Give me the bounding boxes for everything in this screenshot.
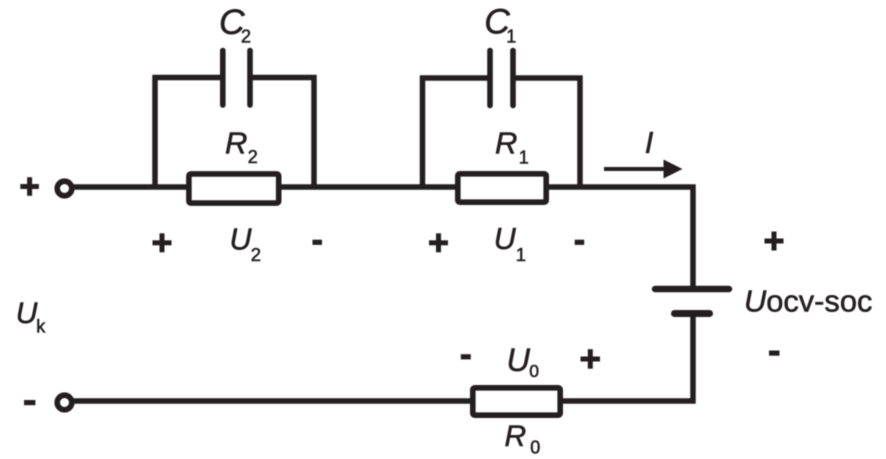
terminal minus circle [57, 395, 72, 410]
resistor R1 body [458, 174, 546, 202]
svg-text:1: 1 [519, 147, 529, 167]
C1 loop right vertical wire [577, 76, 583, 188]
svg-text:k: k [36, 316, 46, 336]
minus sign below Uocv [769, 351, 780, 356]
plus sign left of U2 [153, 233, 172, 252]
capacitor C2 plates [223, 51, 250, 106]
plus sign above Uocv [765, 232, 784, 251]
current arrow I head [664, 160, 683, 179]
svg-text:2: 2 [251, 244, 261, 265]
wire bottom-left [73, 398, 473, 404]
plus sign right of U0 [581, 349, 601, 369]
svg-text:1: 1 [516, 244, 526, 265]
svg-text:2: 2 [241, 27, 251, 47]
svg-text:U: U [507, 342, 531, 378]
svg-text:U: U [230, 223, 253, 257]
svg-text:R: R [505, 420, 527, 453]
wire top-left [73, 184, 190, 190]
capacitor C1 plates [490, 51, 513, 106]
current arrow I shaft [604, 167, 667, 171]
svg-text:1: 1 [506, 27, 516, 47]
C1 loop top-left wire [420, 75, 490, 81]
svg-text:R: R [225, 126, 247, 161]
resistor R0 body [473, 388, 560, 415]
C2 loop top-right wire [250, 75, 317, 81]
battery Uocv short plate [675, 310, 710, 317]
svg-text:I: I [645, 125, 654, 160]
battery Uocv long plate [655, 286, 729, 293]
C2 loop right vertical wire [311, 75, 317, 187]
C1 loop left vertical wire [420, 76, 426, 188]
plus sign left of U1 [429, 233, 448, 252]
minus sign right of U2 [313, 240, 323, 245]
svg-text:0: 0 [530, 437, 540, 457]
minus sign right of U1 [575, 240, 585, 245]
C2 loop top-left wire [153, 75, 223, 81]
resistor R2 body [189, 174, 279, 203]
plus sign at positive terminal [20, 177, 39, 196]
wire top-right [546, 184, 696, 190]
wire right vertical upper [690, 185, 696, 290]
wire right vertical lower [690, 314, 696, 404]
C1 loop top-right wire [513, 75, 583, 81]
wire bottom-right [560, 398, 696, 404]
svg-text:U: U [16, 297, 38, 330]
svg-text:U: U [494, 222, 517, 256]
minus sign at negative terminal [24, 400, 35, 405]
svg-text:Uocv-soc: Uocv-soc [744, 283, 872, 318]
svg-text:0: 0 [529, 361, 539, 381]
terminal plus circle [57, 181, 72, 196]
wire top-middle [279, 184, 458, 190]
C2 loop left vertical wire [152, 75, 158, 187]
minus sign left of U0 [461, 354, 471, 359]
svg-text:2: 2 [248, 147, 258, 167]
svg-text:R: R [495, 126, 517, 161]
